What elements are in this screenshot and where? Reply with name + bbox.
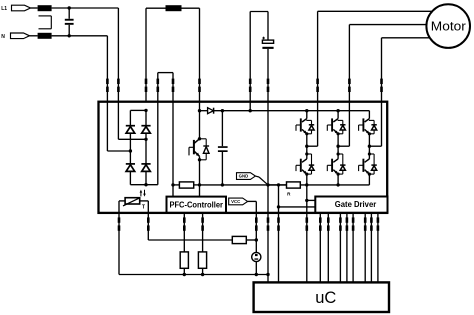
diode bridge D3 (126, 164, 135, 172)
pin thermistor right (147, 217, 150, 230)
wire DC+ pin stub (249, 102, 251, 111)
transistor inverter Q1 high (296, 111, 314, 147)
wire rail after R (300, 184, 369, 186)
junction shunt rail left (171, 183, 174, 186)
transistor inverter Q2 high (327, 111, 345, 147)
wire N line (52, 35, 108, 37)
pin inductor connector (198, 79, 201, 92)
wire GD sense left drop (278, 185, 280, 213)
junction L1/X-cap (68, 6, 71, 9)
junction phase node 1 (305, 145, 308, 148)
connector N (11, 33, 30, 39)
transistor boost IGBT (189, 111, 209, 185)
capacitor DC film (218, 111, 228, 185)
pin PFC 2 (201, 217, 204, 230)
junction DC+ pin (249, 109, 252, 112)
resistor PFC shunt (179, 182, 193, 188)
wire L1 into bridge (118, 102, 146, 140)
wire inductor to pin (182, 7, 200, 9)
wire gate driver signal 4 (346, 213, 348, 283)
wire PFC pin1 drop (183, 213, 185, 252)
junction phase node 3 (368, 145, 371, 148)
wire elco bottom drop (267, 49, 269, 102)
wire phase W drop (381, 38, 383, 102)
wire phase V drop (348, 25, 350, 102)
wire gate driver signal 6 (364, 213, 366, 283)
power tag VCC (229, 198, 248, 205)
junction supply gnd (255, 273, 258, 276)
wire gate driver signal 3 (339, 213, 341, 283)
junction divider2 gnd (201, 273, 204, 276)
wire PFC pin2 drop (202, 213, 204, 252)
uC block U1 (254, 282, 389, 312)
node N label (1, 34, 5, 40)
power module board outline (99, 102, 388, 213)
pin GND (267, 217, 270, 230)
svg-text:Motor: Motor (431, 20, 466, 34)
wire phase U drop (317, 11, 319, 101)
wire VCC tail (248, 201, 257, 212)
power supply source (252, 252, 261, 261)
pin jumper right connector (172, 79, 175, 92)
junction bridge right AC (144, 138, 147, 141)
choke core coupling bracket (39, 16, 52, 29)
wire shunt rail drop (172, 102, 174, 185)
wire shunt to emitter (194, 184, 200, 186)
pin gate driver 5 (352, 217, 355, 230)
junction inverter top leg1 (305, 109, 308, 112)
diode bridge D1 (126, 126, 135, 134)
pin gate driver 8 (377, 217, 380, 230)
wire gnd to uC (267, 275, 269, 283)
wire phase V horizontal (349, 24, 426, 26)
wire current sense drop (306, 185, 308, 213)
pin gate driver 3 (339, 217, 342, 230)
svg-text:L1: L1 (1, 6, 7, 12)
wire bridge+ up (145, 8, 147, 102)
wire jumper top (158, 72, 173, 74)
transistor inverter Q3 high (359, 111, 377, 147)
resistor PFC divider 1 (180, 252, 188, 268)
wire rail to shunt (173, 184, 179, 186)
wire gate driver signal 8 (377, 213, 379, 283)
wire VCC drop (255, 213, 257, 253)
wire DC+ rail (214, 110, 370, 112)
common-mode choke winding top (38, 5, 52, 11)
wire to inductor (146, 7, 166, 9)
capacitor elco plus (262, 37, 265, 40)
op-amp Gate Driver box (315, 197, 387, 213)
wire elco/GND drop (267, 102, 269, 185)
wire L1 line (52, 7, 119, 9)
pin L1 board connector (117, 79, 120, 92)
wire GND drop 2 (267, 213, 269, 275)
pin gate driver 1 (319, 217, 322, 230)
transistor inverter Q4 low (296, 151, 314, 185)
svg-text:GND: GND (239, 174, 249, 179)
wire phase link 2 (337, 146, 339, 151)
inductor boost choke (166, 5, 182, 11)
node L1 label (1, 6, 7, 12)
wire bridge right leg (145, 110, 147, 184)
wire phase U horizontal (318, 10, 432, 12)
wire bridge left leg (129, 110, 131, 184)
wire phase link 3 (368, 146, 370, 151)
wire N drop (106, 36, 108, 102)
wire thermistor left lead (119, 201, 125, 213)
transistor inverter Q6 low (359, 151, 377, 185)
wire gate driver signal 1 (319, 213, 321, 283)
wire gate driver signal 7 (370, 213, 372, 283)
wire pullup to VCC node (246, 239, 256, 241)
pin DC+ connector (249, 79, 252, 92)
junction PFC emitter rail (198, 183, 201, 186)
junction bridge plus (144, 109, 147, 112)
wire phase W horizontal (382, 37, 430, 39)
wire jumper left (157, 73, 159, 102)
pin gate driver 6 (364, 217, 367, 230)
wire current sense stub (307, 199, 316, 201)
pin current sense (306, 217, 309, 230)
pin jumper left connector (157, 79, 160, 92)
wire rail segment (268, 184, 287, 186)
wire supply to rail (255, 262, 257, 275)
label T (142, 204, 146, 210)
pin VCC (255, 217, 258, 230)
wire DC link top (250, 11, 268, 13)
wire gate driver signal 2 (327, 213, 329, 283)
wire DC+ up (249, 12, 251, 102)
junction divider1 gnd (183, 273, 186, 276)
junction inverter top leg2 (336, 109, 339, 112)
wire N into bridge (107, 102, 130, 151)
junction film cap top (221, 109, 224, 112)
wire PFC ctrl stub left (172, 185, 174, 197)
wire thermistor left drop (118, 213, 120, 275)
junction control gnd end (266, 273, 269, 276)
wire phase tap 1 (307, 102, 318, 147)
wire thermistor right lead (140, 201, 149, 213)
capacitor X-cap (65, 8, 74, 36)
capacitor elco (262, 40, 273, 49)
wire current sense drop 2 (306, 213, 308, 283)
svg-text:uC: uC (315, 289, 336, 307)
junction film cap bottom (221, 183, 224, 186)
wire phase link 1 (306, 146, 308, 151)
label R (287, 192, 291, 197)
resistor shunt R (287, 182, 301, 188)
svg-text:R: R (287, 192, 291, 197)
wire bridge bottom rail (130, 184, 157, 186)
wire GND tail (255, 176, 268, 185)
wire phase tap 3 (369, 102, 381, 147)
thermistor arrows (140, 190, 146, 197)
pin phase W connector (380, 79, 383, 92)
junction inverter emitter2 (336, 183, 339, 186)
diode bridge D2 (141, 126, 150, 134)
junction GD sense left T (277, 205, 280, 208)
pin PFC 1 (183, 217, 186, 230)
pin elco connector (267, 79, 270, 92)
pin gate driver 7 (370, 217, 373, 230)
wire divider2 to rail (202, 268, 204, 274)
svg-text:T: T (142, 204, 146, 210)
junction GD sense left (277, 183, 280, 186)
junction boost node (198, 109, 201, 112)
wire divider1 to rail (183, 268, 185, 274)
pin bridge+ connector (145, 79, 148, 92)
svg-text:VCC: VCC (231, 199, 240, 204)
pin gate driver 2 (327, 217, 330, 230)
wire L1 drop (117, 8, 119, 102)
wire bridge minus up to pin (157, 102, 159, 185)
wire N tag to choke (30, 35, 38, 37)
pin sense left (277, 217, 280, 230)
junction phase node 2 (336, 145, 339, 148)
pin gate driver 4 (346, 217, 349, 230)
pin phase U connector (316, 79, 319, 92)
junction GND rail (266, 183, 269, 186)
wire GND through board (267, 185, 269, 213)
svg-text:Gate Driver: Gate Driver (335, 199, 377, 209)
resistor thermistor pullup (232, 236, 246, 243)
motor M1 (426, 4, 470, 48)
pin phase V connector (348, 79, 351, 92)
svg-text:N: N (1, 34, 5, 40)
wire elco top (267, 12, 269, 41)
wire GD sense left stub (279, 206, 316, 208)
wire pin to boost node (199, 102, 201, 111)
diode bridge D4 (141, 164, 150, 172)
ground tag GND (237, 173, 256, 180)
wire PFC ctrl stub right (199, 185, 201, 197)
diode boost (200, 108, 214, 114)
junction inverter emitter1 (305, 183, 308, 186)
wire sense left drop 2 (278, 213, 280, 283)
pin thermistor left (118, 217, 121, 230)
junction VCC sense (255, 238, 258, 241)
junction bridge minus (144, 183, 147, 186)
connector L1 (12, 5, 31, 11)
thermistor T (123, 198, 140, 206)
wire inductor drop (199, 8, 201, 102)
wire minus rail (200, 184, 287, 186)
wire L1 tag to choke (31, 7, 38, 9)
wire thermistor sense line (148, 239, 232, 241)
op-amp PFC-Controller box (167, 197, 227, 213)
wire control ground rail (119, 274, 268, 276)
junction bridge left AC (129, 149, 132, 152)
common-mode choke winding bottom (38, 33, 52, 39)
pin N board connector (106, 79, 109, 92)
wire jumper right (172, 73, 174, 102)
resistor PFC divider 2 (198, 252, 206, 268)
junction N/X-cap (68, 34, 71, 37)
wire thermistor right drop (147, 213, 149, 240)
wire bridge top rail (130, 109, 146, 111)
wire phase tap 2 (338, 102, 349, 147)
wire gate driver signal 5 (352, 213, 354, 283)
svg-text:PFC-Controller: PFC-Controller (169, 200, 223, 209)
transistor inverter Q5 low (327, 151, 345, 185)
junction current sense T (305, 199, 308, 202)
